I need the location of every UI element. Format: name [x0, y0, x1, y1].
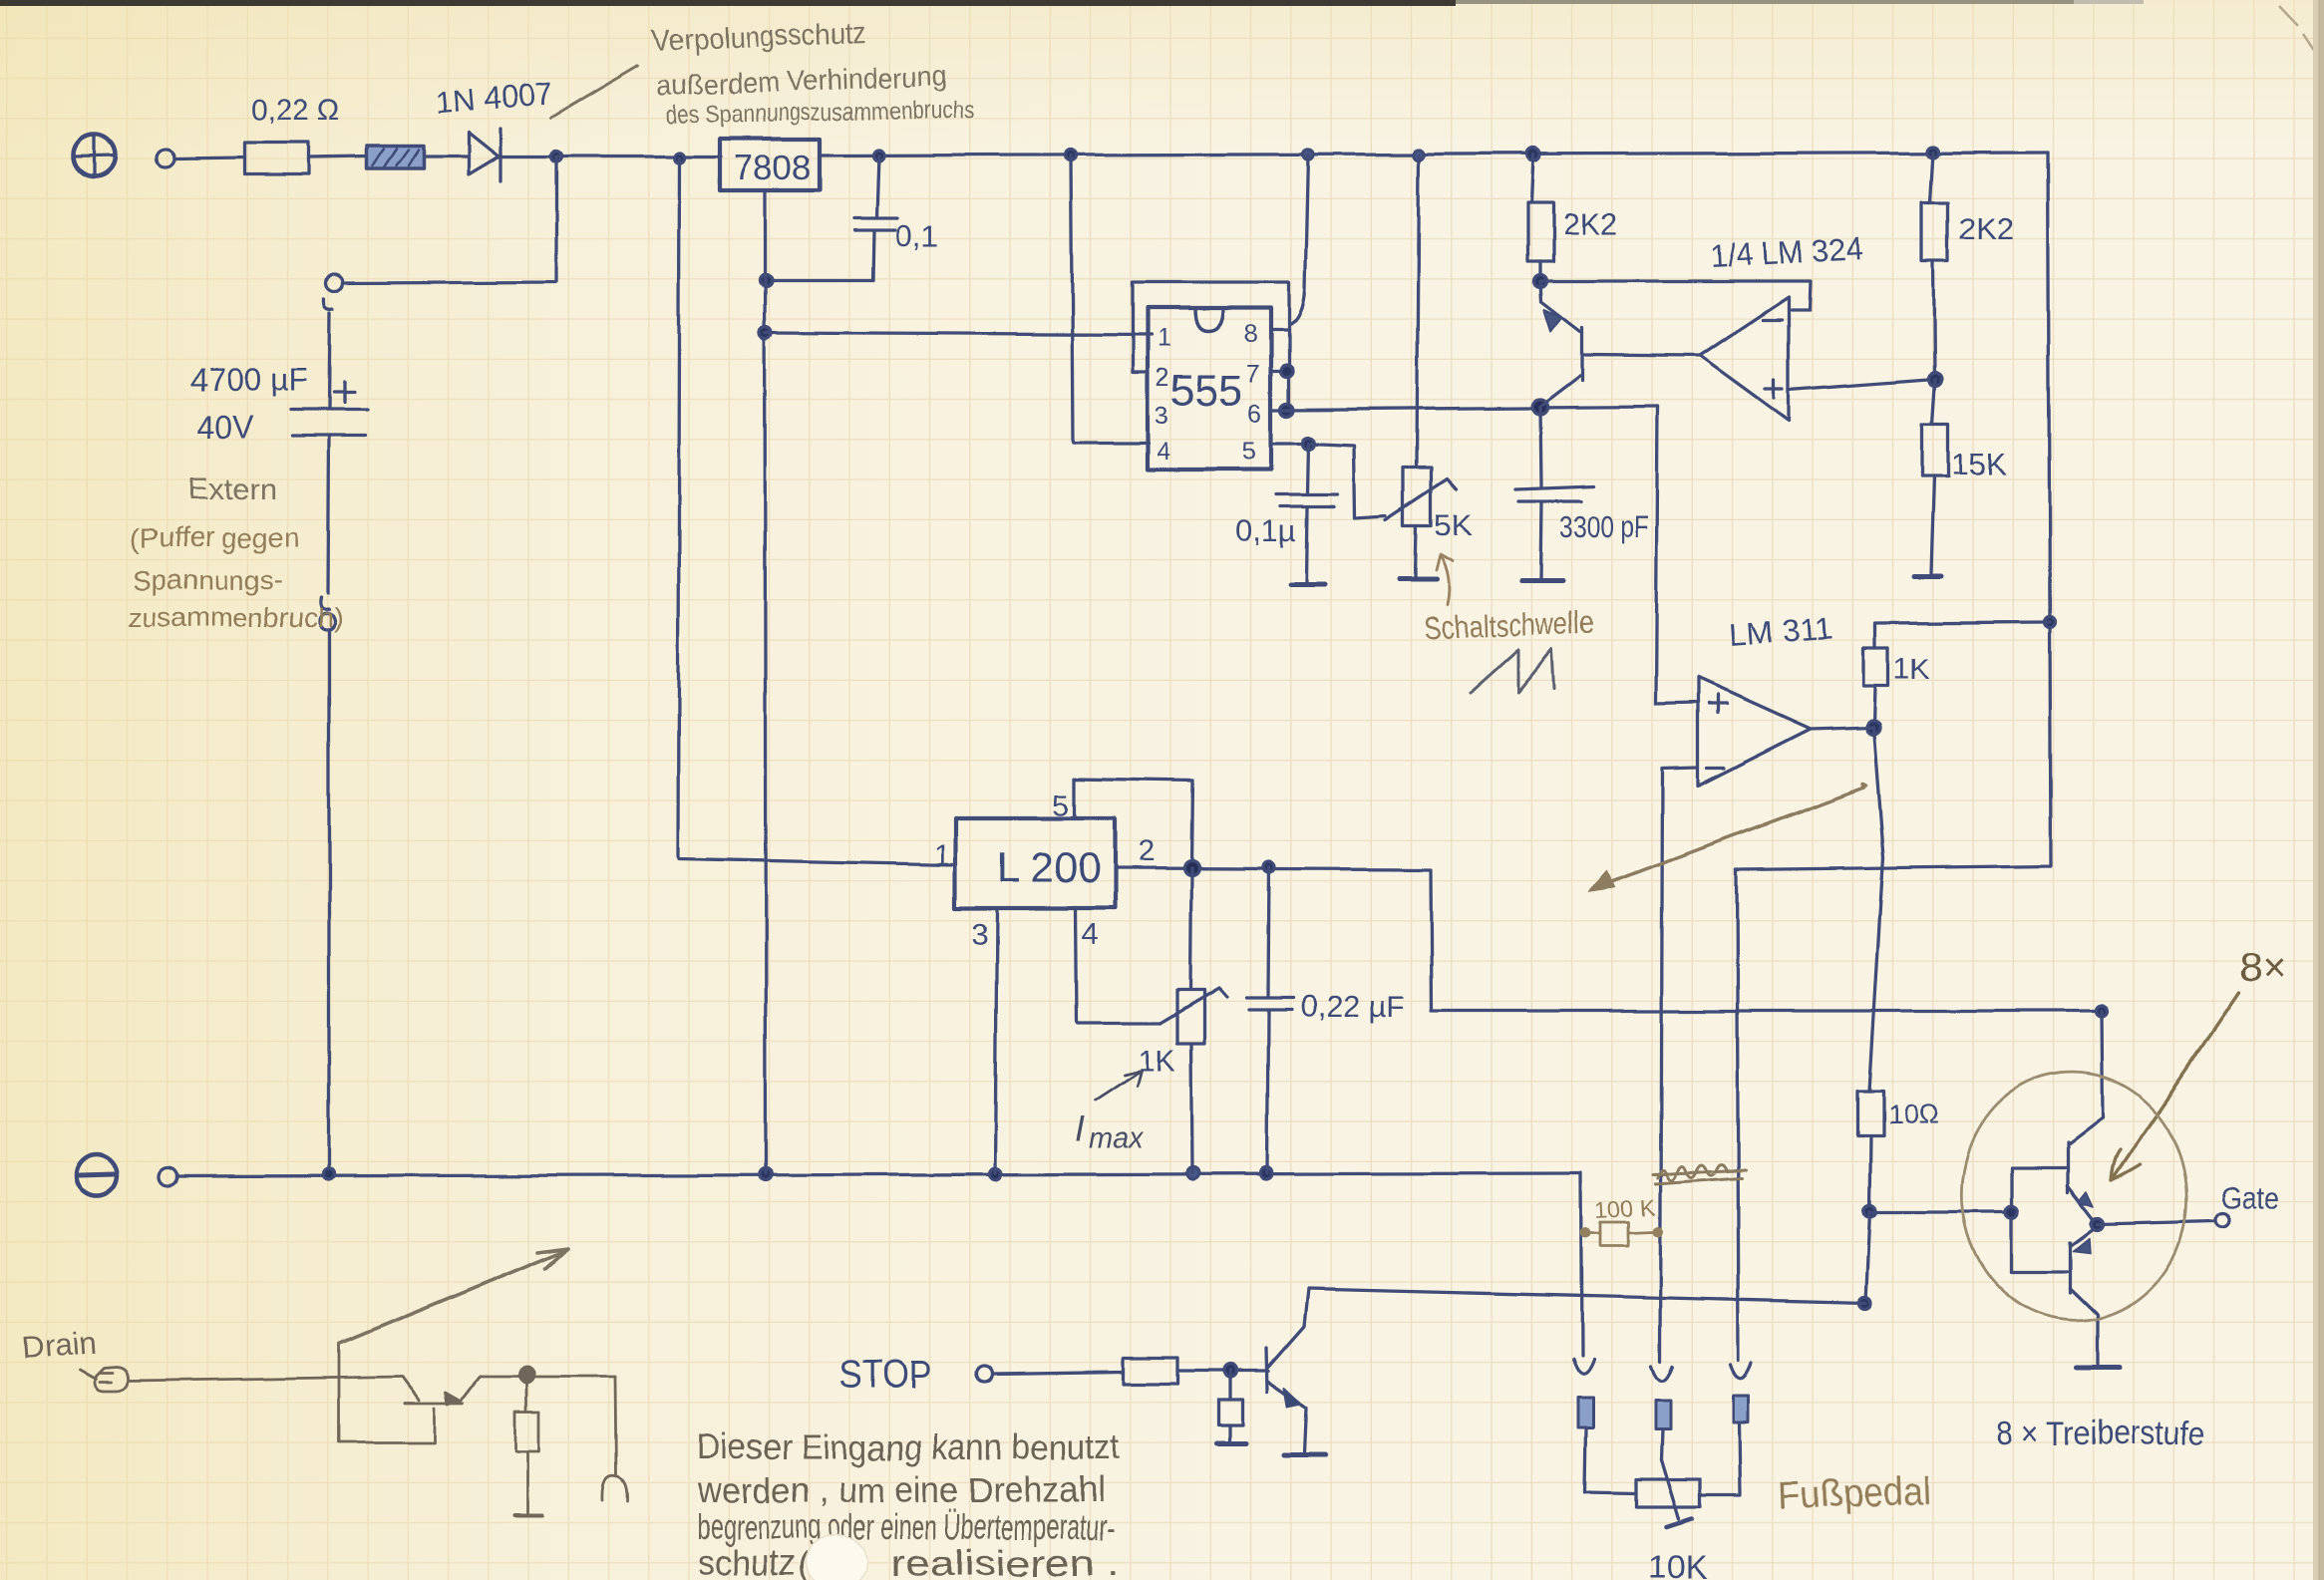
LM311 minus input wire	[1660, 768, 1698, 1361]
wire	[308, 157, 367, 158]
node 0,22uF tap	[1264, 862, 1275, 873]
node	[1534, 275, 1547, 288]
resistor R stop pulldown	[1217, 1371, 1246, 1443]
connector pin middle	[1655, 1400, 1670, 1428]
svg-text:8: 8	[1244, 320, 1258, 348]
wire 10ohm to driver bases	[1869, 1210, 2012, 1213]
wire long vertical to minus rail	[327, 631, 330, 1174]
diode D1 1N4007	[435, 76, 554, 180]
node stop rail	[1858, 1297, 1870, 1309]
driver base bracket	[2012, 1167, 2071, 1272]
svg-text:100 K: 100 K	[1594, 1194, 1656, 1223]
wire	[1700, 1422, 1741, 1495]
L200 pin2 rail	[1115, 868, 2102, 1011]
L200 pin4 wire to pot wiper	[1076, 908, 1161, 1023]
svg-text:schutz: schutz	[698, 1542, 796, 1580]
transistor Q drain pencil	[339, 1344, 615, 1442]
svg-text:I: I	[1075, 1108, 1085, 1149]
svg-text:8×: 8×	[2239, 943, 2287, 990]
regulator U 7808	[720, 139, 820, 190]
node	[1928, 147, 1939, 158]
svg-text:0,22 Ω: 0,22 Ω	[251, 94, 340, 127]
node	[324, 1169, 335, 1180]
svg-text:Spannungs-: Spannungs-	[133, 564, 283, 595]
svg-text:5: 5	[1242, 438, 1256, 466]
arrow 8x to driver	[2112, 993, 2239, 1180]
op-amp U 1/4 LM324	[1700, 230, 1863, 421]
note extern buffer	[128, 472, 343, 633]
pin6 rail to comparator	[1271, 407, 1658, 410]
svg-text:(Puffer gegen: (Puffer gegen	[131, 522, 299, 553]
svg-text:4700 µF: 4700 µF	[190, 362, 308, 398]
L200 pin3 ground wire	[995, 908, 997, 1173]
svg-text:1K: 1K	[1138, 1043, 1175, 1078]
node junction below diode	[551, 152, 562, 162]
top rail wire	[820, 153, 2048, 156]
LM311 output wire	[1811, 727, 1873, 729]
node bracket	[2006, 1206, 2018, 1218]
svg-text:7808: 7808	[734, 149, 812, 187]
svg-text:Gate: Gate	[2220, 1180, 2280, 1215]
wire	[329, 313, 330, 409]
wire cap to x768 vertical	[766, 278, 873, 281]
connector hook middle	[1651, 1366, 1672, 1381]
resistor R 2K2 left	[1527, 155, 1617, 281]
svg-text:3: 3	[971, 918, 988, 951]
L200 pin5 loop wire	[1075, 779, 1192, 866]
node	[1414, 150, 1424, 159]
wire	[424, 155, 469, 158]
arrow to 5K	[1437, 554, 1454, 605]
node	[1260, 1167, 1272, 1179]
svg-text:max: max	[1089, 1123, 1145, 1155]
wire	[1585, 1427, 1636, 1493]
node drain junction	[518, 1367, 534, 1383]
svg-text:4: 4	[1157, 438, 1170, 466]
capacitor C 0,22uF	[1247, 867, 1406, 1173]
wire	[498, 155, 556, 158]
svg-text:40V: 40V	[196, 410, 254, 446]
svg-text:10Ω: 10Ω	[1887, 1100, 1939, 1130]
node	[760, 274, 772, 286]
node pin6	[1281, 404, 1294, 417]
node gate junction	[2092, 1218, 2104, 1230]
minus terminal	[76, 1154, 118, 1196]
wire pin6 rail down to LM311 plus	[1656, 407, 1698, 704]
svg-text:1: 1	[1158, 324, 1171, 352]
resistor R stop series	[1124, 1358, 1177, 1384]
wire driver collector drop	[2102, 1011, 2103, 1116]
svg-text:0,22 µF: 0,22 µF	[1300, 989, 1406, 1024]
wire down to stop rail	[1865, 1211, 1869, 1302]
node	[989, 1168, 1001, 1180]
node	[1303, 150, 1313, 159]
svg-text:5K: 5K	[1435, 507, 1473, 542]
plus input wire	[1789, 379, 1935, 390]
node	[1187, 1167, 1199, 1179]
555 outer bracket pin2-pin8	[1133, 282, 1289, 410]
node sawtooth junction	[1533, 400, 1548, 415]
connector hook	[1573, 1359, 1594, 1374]
resistor R 10 ohm	[1857, 727, 1939, 1209]
resistor R 15K	[1914, 379, 2006, 576]
opamp output wire to Q	[1585, 355, 1700, 356]
svg-text:0,1: 0,1	[895, 219, 938, 254]
annotation arrow comparator	[1595, 784, 1866, 888]
transistor Q upper driver	[2068, 1117, 2103, 1225]
pin7 stub	[1271, 369, 1287, 372]
svg-text:L 200: L 200	[997, 844, 1101, 891]
capacitor C 0,1u at 555 pin5	[1235, 444, 1338, 584]
fuse F1	[367, 146, 424, 168]
svg-text:werden , um eine Drehzahl: werden , um eine Drehzahl	[697, 1469, 1105, 1510]
svg-text:6: 6	[1248, 400, 1262, 428]
connector hook	[324, 299, 333, 309]
vertical wire x1074 to 555 pin4	[1071, 156, 1149, 443]
drain connector plug	[80, 1367, 129, 1391]
svg-text:4: 4	[1082, 918, 1099, 951]
svg-text:Dieser Eingang kann benutzt: Dieser Eingang kann benutzt	[697, 1426, 1120, 1467]
scribble crossed word	[1652, 1163, 1745, 1183]
pin8 stub	[1271, 328, 1289, 331]
fusspedal right wire	[1737, 870, 1739, 1361]
svg-text:15K: 15K	[1951, 447, 2006, 481]
svg-text:Schaltschwelle: Schaltschwelle	[1423, 604, 1595, 646]
drain right connector hook	[602, 1377, 627, 1501]
svg-text:2: 2	[1138, 835, 1155, 868]
vertical wire x682 to L200 pin1	[678, 158, 954, 865]
svg-text:LM 311: LM 311	[1728, 610, 1834, 653]
regulator U L200	[933, 790, 1155, 951]
node	[873, 151, 884, 161]
svg-text:2: 2	[1156, 364, 1169, 392]
transistor Q at LM324	[1540, 281, 1582, 405]
capacitor C 4700uF 40V	[190, 362, 367, 446]
transistor Q stop	[1266, 1326, 1326, 1455]
node pin7	[1281, 365, 1293, 377]
wire gate output	[2098, 1221, 2214, 1224]
vertical wire x768 from 7808 to minus rail	[765, 190, 766, 1173]
svg-text:Fußpedal: Fußpedal	[1778, 1470, 1933, 1518]
plus terminal	[74, 135, 116, 176]
node	[1224, 1365, 1237, 1378]
svg-text:2K2: 2K2	[1959, 211, 2014, 246]
driver stage circle	[1949, 1061, 2199, 1332]
minus rail wire	[177, 1173, 1581, 1176]
svg-text:555: 555	[1170, 366, 1243, 415]
svg-text:7: 7	[1246, 360, 1260, 388]
big arrow drain to gate wire	[340, 1248, 568, 1344]
plus input pad	[157, 150, 174, 167]
svg-text:realisieren .: realisieren .	[890, 1542, 1120, 1580]
node	[1863, 1205, 1875, 1217]
resistor R 0,22 ohm	[245, 94, 340, 174]
gate pad	[2215, 1213, 2229, 1227]
right vertical supply wire	[1737, 153, 2051, 870]
white-out blob	[806, 1535, 867, 1580]
node	[760, 1168, 772, 1180]
svg-text:Drain: Drain	[21, 1326, 97, 1366]
paper right edge	[2313, 0, 2324, 1580]
potentiometer 1K Imax	[1138, 868, 1227, 1173]
capacitor C 3300pF	[1516, 407, 1649, 580]
resistor R drain pulldown	[514, 1376, 542, 1516]
sawtooth waveform	[1471, 650, 1555, 693]
wire	[994, 1372, 1124, 1374]
node	[675, 153, 685, 162]
wire from diode node down to buffer branch	[344, 157, 556, 283]
pad circle	[319, 614, 335, 630]
fusspedal left wire from minus rail	[1581, 1173, 1582, 1356]
transistor Q lower driver	[2071, 1226, 2120, 1368]
svg-text:0,1µ: 0,1µ	[1235, 513, 1296, 548]
svg-text:zusammenbruch): zusammenbruch)	[128, 602, 343, 633]
node pin2/pot	[1184, 861, 1199, 876]
resistor R 100K pencil	[1581, 1194, 1661, 1246]
wire pin5 to 5K wiper	[1308, 444, 1386, 517]
svg-text:8 × Treiberstufe: 8 × Treiberstufe	[1997, 1415, 2204, 1452]
svg-text:3300 pF: 3300 pF	[1559, 509, 1649, 544]
svg-text:5: 5	[1053, 790, 1070, 822]
resistor R 1K right	[1863, 648, 1930, 725]
node LM311 output	[1866, 720, 1880, 734]
connector pin	[1734, 1396, 1749, 1422]
paper right edge torn marks	[2279, 6, 2315, 52]
svg-text:STOP: STOP	[839, 1353, 931, 1397]
connector pin	[1578, 1398, 1593, 1427]
scan top edge	[0, 0, 2144, 4]
wire	[328, 436, 329, 594]
wire	[1177, 1369, 1268, 1372]
note verpolungsschutz	[652, 17, 975, 130]
svg-text:2K2: 2K2	[1562, 206, 1617, 241]
wire	[175, 158, 245, 158]
node plus divider	[1929, 373, 1942, 386]
comparator U LM311	[1698, 610, 1834, 786]
feedback wire minus input	[1540, 281, 1811, 310]
svg-text:1K: 1K	[1893, 653, 1930, 686]
pin5 stub and node	[1271, 442, 1308, 445]
timer U 555	[1148, 308, 1271, 470]
wire 555 vcc drop to pin8	[1291, 155, 1308, 324]
wire stop collector rail	[1304, 1289, 1865, 1326]
svg-text:des Spannungszusammenbruchs: des Spannungszusammenbruchs	[666, 97, 975, 130]
node pin2 rail to driver	[2097, 1006, 2108, 1017]
svg-text:3: 3	[1155, 402, 1168, 430]
resistor R 2K2 right	[1922, 152, 2014, 377]
potentiometer 10K fusspedal	[1636, 1459, 1708, 1580]
minus input pad	[160, 1167, 177, 1185]
note dieser eingang	[697, 1426, 1120, 1580]
node	[1066, 151, 1077, 161]
node	[1527, 149, 1540, 161]
note Imax	[1075, 1071, 1145, 1155]
potentiometer 5K	[1386, 155, 1473, 580]
svg-text:begrenzung oder einen Übertemp: begrenzung oder einen Übertemperatur-	[698, 1506, 1115, 1547]
buffer pad circle	[326, 275, 343, 292]
svg-text:1: 1	[933, 839, 950, 872]
top rail wire	[556, 155, 721, 158]
wire 1K branch	[1875, 622, 2050, 648]
wire to 555 pin1	[766, 333, 1152, 335]
node	[760, 327, 772, 339]
svg-text:10K: 10K	[1649, 1548, 1708, 1580]
wire middle to wiper	[1661, 1428, 1662, 1459]
fusspedal middle wire	[1658, 1359, 1661, 1362]
svg-text:Extern: Extern	[187, 472, 277, 506]
drain wire	[129, 1377, 403, 1381]
annotation arrow to diode	[550, 66, 638, 118]
capacitor C 0,1 at 7808	[854, 156, 938, 280]
stop pad	[977, 1366, 993, 1382]
connector hook	[320, 598, 329, 610]
connector hook	[1731, 1364, 1752, 1379]
node	[2045, 617, 2056, 628]
